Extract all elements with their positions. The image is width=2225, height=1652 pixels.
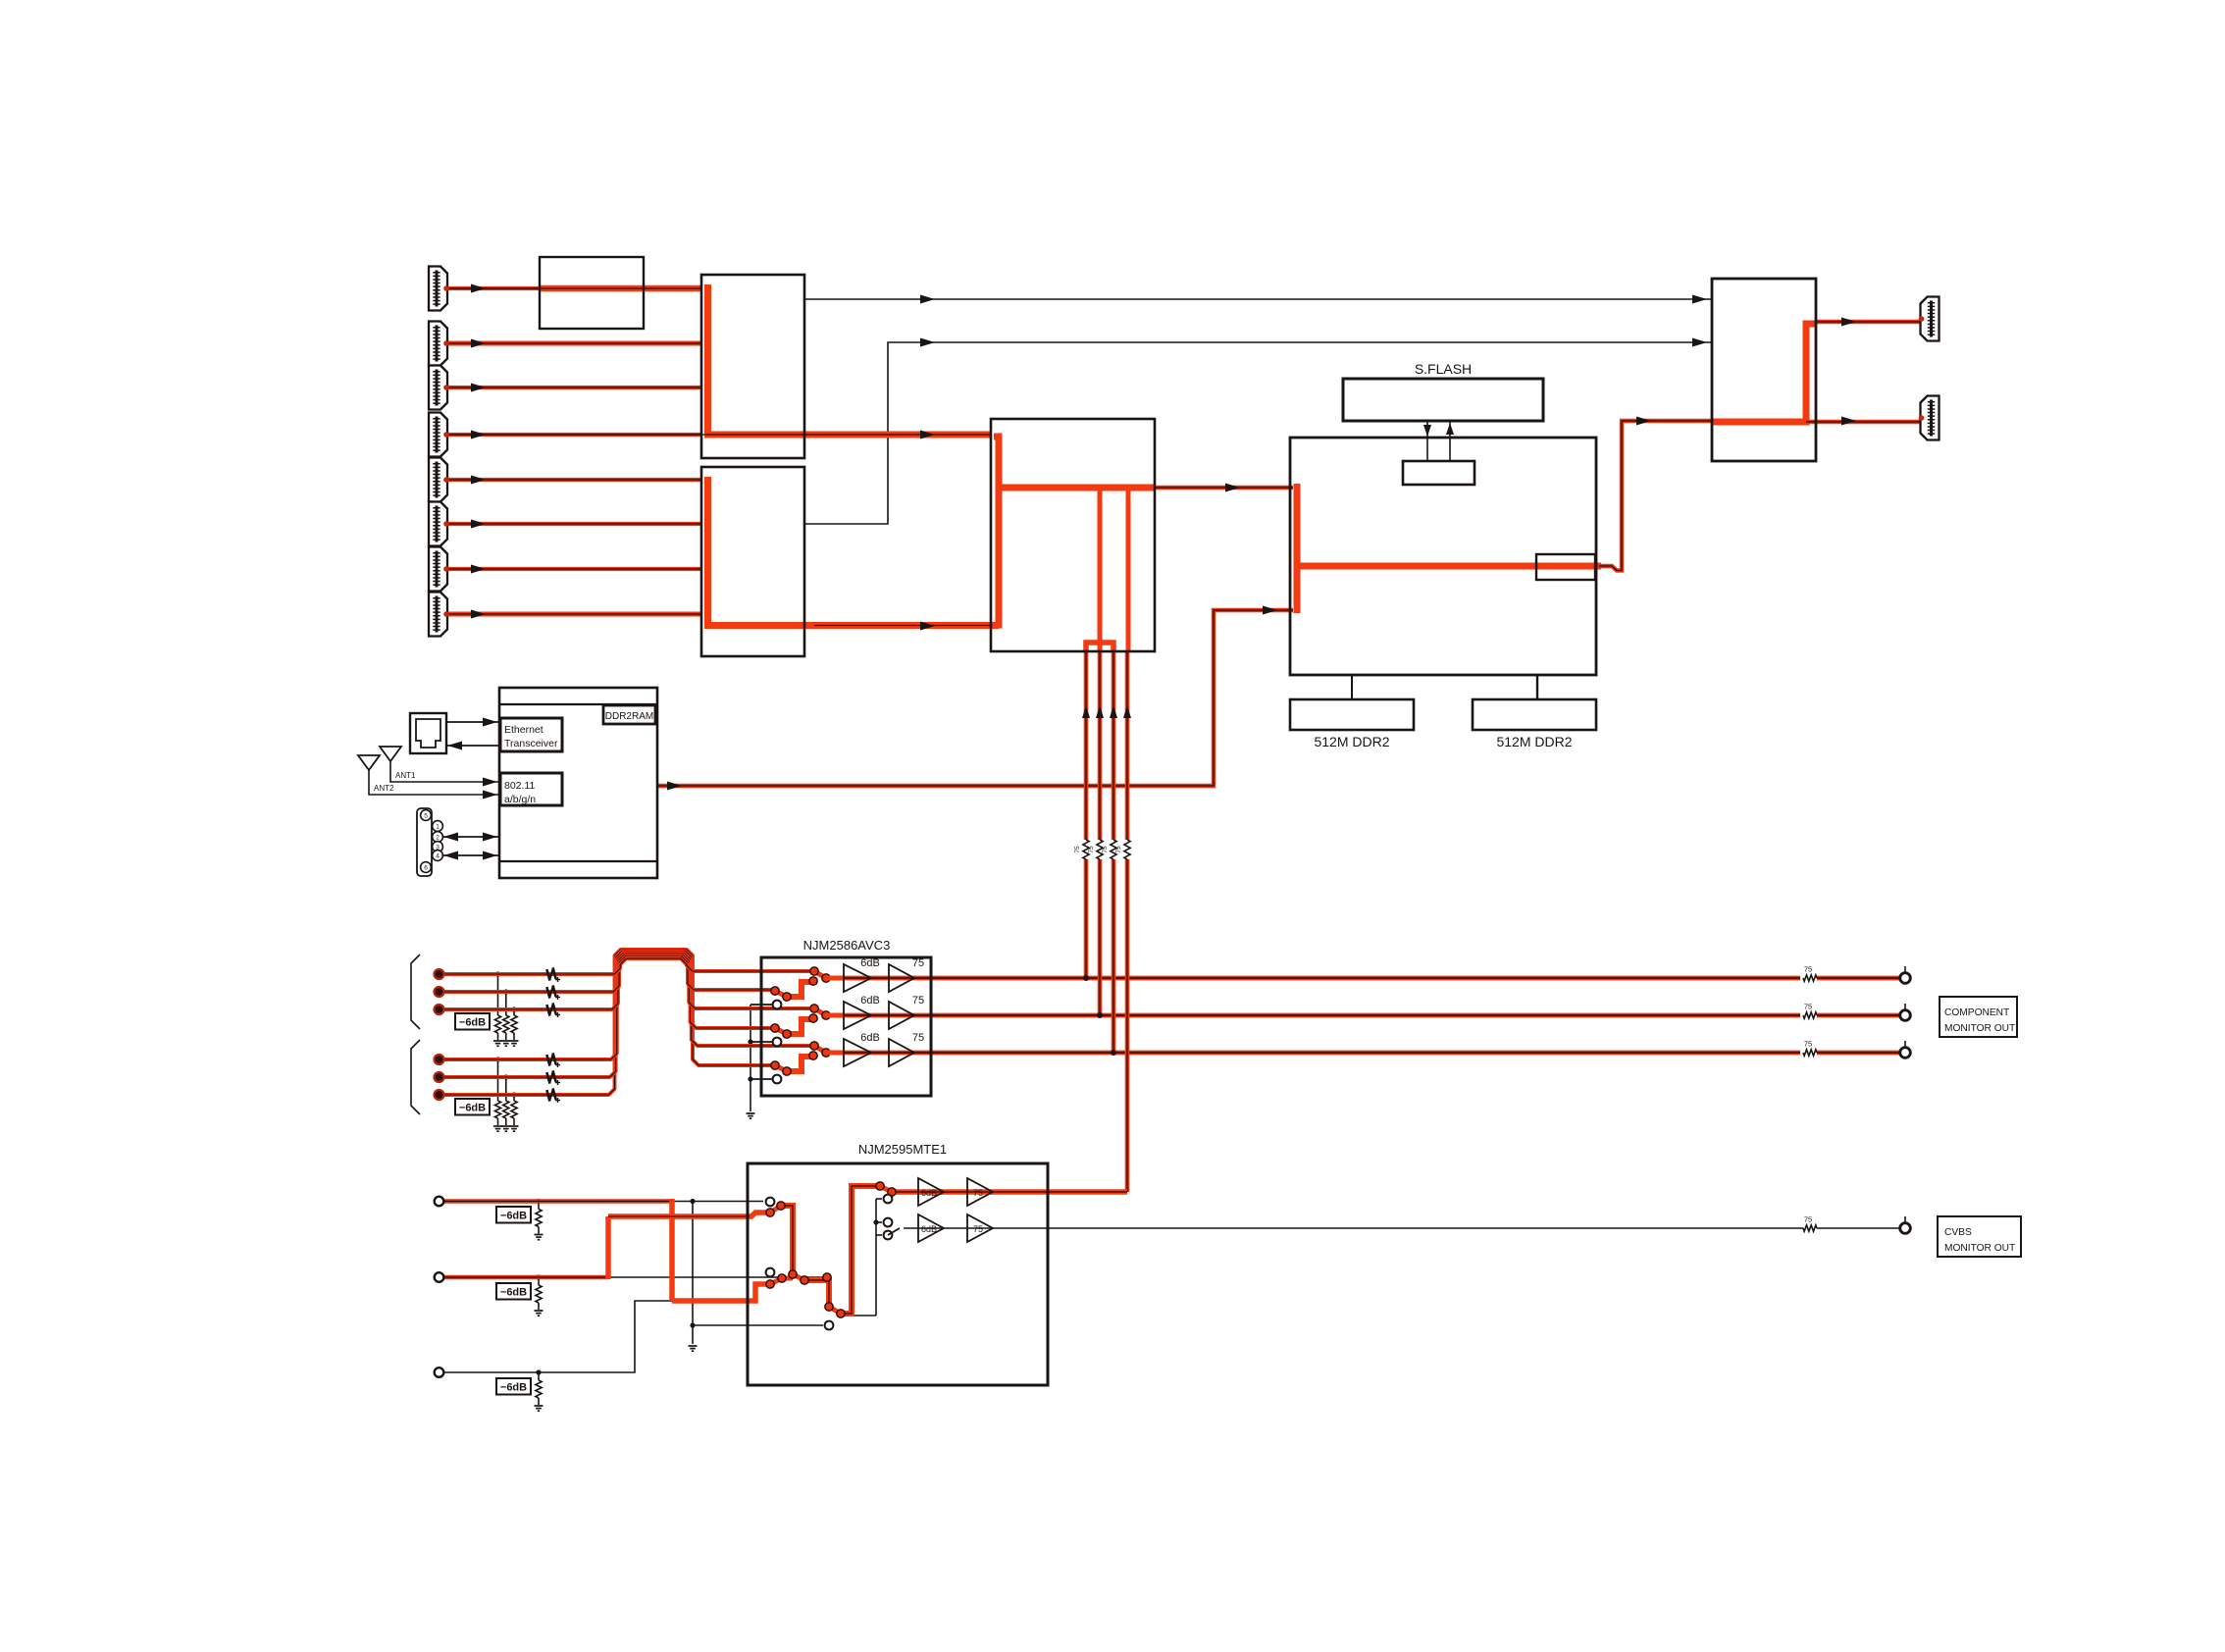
svg-text:NJM2586AVC3: NJM2586AVC3 xyxy=(803,938,891,953)
svg-text:ANT2: ANT2 xyxy=(374,784,394,793)
svg-text:−6dB: −6dB xyxy=(459,1103,486,1114)
svg-text:−6dB: −6dB xyxy=(500,1287,527,1299)
svg-text:6dB: 6dB xyxy=(860,995,880,1007)
svg-text:4: 4 xyxy=(436,852,440,859)
svg-text:75: 75 xyxy=(912,957,924,969)
svg-text:2: 2 xyxy=(436,834,440,841)
svg-text:DDR2RAM: DDR2RAM xyxy=(605,711,653,722)
svg-text:−6dB: −6dB xyxy=(500,1382,527,1394)
svg-text:6dB: 6dB xyxy=(860,957,880,969)
svg-text:ANT1: ANT1 xyxy=(395,771,416,780)
svg-text:CVBS: CVBS xyxy=(1944,1227,1972,1238)
svg-text:Ethernet: Ethernet xyxy=(504,724,543,736)
svg-text:−6dB: −6dB xyxy=(459,1017,486,1029)
svg-text:6dB: 6dB xyxy=(921,1188,937,1198)
svg-text:6: 6 xyxy=(424,864,428,871)
svg-text:5: 5 xyxy=(424,812,428,819)
svg-text:802.11: 802.11 xyxy=(504,780,535,792)
svg-text:75: 75 xyxy=(912,1032,924,1044)
svg-text:75: 75 xyxy=(973,1224,983,1234)
svg-text:75: 75 xyxy=(912,995,924,1007)
svg-text:75: 75 xyxy=(1804,1215,1812,1224)
svg-text:MONITOR OUT: MONITOR OUT xyxy=(1944,1023,2015,1034)
svg-text:6dB: 6dB xyxy=(921,1224,937,1234)
svg-text:75: 75 xyxy=(1102,846,1109,853)
svg-text:6dB: 6dB xyxy=(860,1032,880,1044)
svg-text:75: 75 xyxy=(973,1188,983,1198)
svg-text:COMPONENT: COMPONENT xyxy=(1944,1007,2009,1018)
svg-text:MONITOR OUT: MONITOR OUT xyxy=(1944,1243,2015,1254)
svg-text:1: 1 xyxy=(436,823,440,830)
svg-text:75: 75 xyxy=(1074,846,1081,853)
svg-text:75: 75 xyxy=(1804,1040,1812,1049)
svg-text:75: 75 xyxy=(1115,846,1122,853)
svg-text:75: 75 xyxy=(1804,1003,1812,1011)
svg-text:a/b/g/n: a/b/g/n xyxy=(504,794,536,805)
svg-text:S.FLASH: S.FLASH xyxy=(1415,361,1472,377)
svg-text:75: 75 xyxy=(1088,846,1095,853)
svg-text:512M DDR2: 512M DDR2 xyxy=(1496,734,1572,749)
svg-text:Transceiver: Transceiver xyxy=(504,738,558,749)
svg-text:512M DDR2: 512M DDR2 xyxy=(1314,734,1389,749)
svg-text:NJM2595MTE1: NJM2595MTE1 xyxy=(858,1142,947,1157)
svg-text:75: 75 xyxy=(1804,965,1812,974)
svg-text:−6dB: −6dB xyxy=(500,1211,527,1222)
